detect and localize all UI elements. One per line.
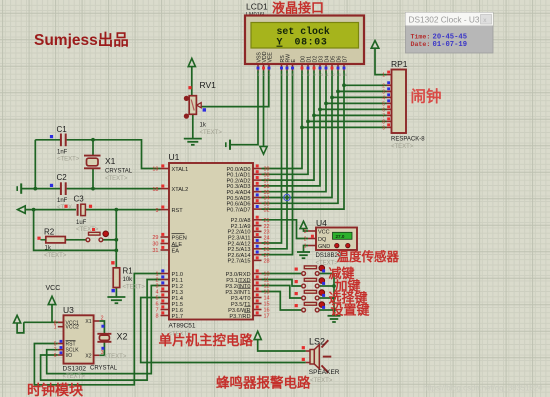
svg-text:19: 19 [152,167,158,173]
label 减键 [329,266,355,281]
U4 labels [316,218,342,267]
power arrow VCC above U3 [48,296,56,322]
U3 labels [63,305,87,380]
label 蜂鸣器报警电路 [216,375,311,391]
svg-text:10k: 10k [123,277,134,283]
crystal X1 [84,156,133,182]
label 闹钟 [411,87,442,106]
svg-text:VCC2: VCC2 [66,325,80,331]
U1 left pin labels [172,167,189,320]
power arrow at speaker [254,331,306,351]
svg-text:CRYSTAL: CRYSTAL [105,169,133,175]
svg-text:XTAL1: XTAL1 [172,167,189,173]
watermark [423,384,543,393]
svg-text:1nF: 1nF [57,150,68,156]
svg-text:12: 12 [330,72,335,77]
push button key4 [295,302,326,312]
RP1 labels [391,59,425,150]
svg-text:<TEXT>: <TEXT> [63,374,86,380]
LCD pin name labels [256,51,348,62]
resistor-pack RP1 body [392,70,407,134]
svg-text:VCC: VCC [46,285,61,292]
svg-text:10: 10 [318,72,323,77]
svg-text:08:03: 08:03 [295,37,328,48]
svg-text:13: 13 [336,72,341,77]
svg-text:3: 3 [304,229,307,235]
power arrow at U4 VCC [300,221,308,231]
U1 label [169,152,180,162]
svg-text:31: 31 [152,248,158,254]
svg-text:XTAL2: XTAL2 [172,187,189,193]
wire X1 bottom stub [91,168,95,190]
capacitor C2 [50,173,72,211]
label 液晶接口 [272,1,324,16]
svg-text:1k: 1k [45,246,52,252]
wire button4 to common ground rail [319,309,334,311]
capacitor C1 [50,125,80,163]
svg-text:C3: C3 [74,195,85,204]
svg-text:U3: U3 [63,305,74,315]
svg-text:AT89C51: AT89C51 [169,323,196,330]
wire U1 P3.2 to button3 [262,286,302,299]
svg-text:RP1: RP1 [391,59,408,69]
svg-text:时钟模块: 时钟模块 [27,382,84,397]
svg-text:2: 2 [101,316,104,322]
svg-text:RST: RST [172,208,184,214]
op-amp U1 AT89C51 body [169,163,253,320]
U1 right pin labels [225,167,250,320]
wire X1 top stub [91,138,95,156]
svg-text:E: E [291,59,297,63]
svg-text:P0.7/AD7: P0.7/AD7 [227,207,251,213]
power arrow above RV1 [188,58,195,95]
wire RST row left [25,208,76,212]
svg-text:27.0: 27.0 [336,234,345,239]
U3 right pins [85,316,103,360]
U4 pin labels [318,229,330,250]
wire U1 P1.4 to speaker [141,298,306,363]
wire button2 to common ground rail [319,285,334,287]
wire LCD D6 to U1 P0.6 and RP1 pin 3 [262,71,340,204]
LCD1 display body [245,16,364,65]
wire LCD D5 to U1 P0.5 and RP1 pin 4 [262,71,334,198]
wire C2 to XTAL2 [67,188,161,190]
svg-text:DQ: DQ [318,237,327,243]
wire U3 I/O to U1 P1.1 [41,280,161,381]
svg-text:14: 14 [342,72,347,77]
svg-text:9: 9 [382,125,385,131]
wire RP1 pin 3 to D6 bus [338,90,387,92]
svg-text:C1: C1 [57,125,68,134]
wire LCD D2 to U1 P0.2 and RP1 pin 7 [262,71,316,181]
svg-text:1: 1 [54,325,57,331]
wire U3 X1 to crystal X2 [99,321,104,334]
power arrow small left of U3 [14,315,24,333]
wire U1 P3.0 to button1 [262,273,302,275]
push button (reset) [86,228,108,242]
svg-text:液晶接口: 液晶接口 [272,1,324,16]
svg-text:CRYSTAL: CRYSTAL [90,366,118,372]
wire RST-row branch down-left [34,210,117,251]
U1 right pin stubs and numbers [253,164,270,319]
wire RP1 pin 4 to D5 bus [332,96,387,98]
push button key3 [295,290,326,300]
svg-text:R1: R1 [123,267,134,276]
svg-text:X1: X1 [85,319,91,325]
svg-text:Date:: Date: [411,41,431,48]
svg-text:EA: EA [172,248,180,254]
svg-text:X1: X1 [105,156,116,166]
svg-text:PSEN: PSEN [172,235,187,241]
svg-text:<TEXT>: <TEXT> [44,253,67,259]
wire LCD RW to U1 P2.5 [262,71,288,249]
U4 pin stubs [304,229,316,250]
svg-text:2: 2 [382,83,385,89]
wire LCD D1 to U1 P0.1 and RP1 pin 8 [262,71,310,175]
svg-text:VEE: VEE [267,52,273,63]
wire RP1 pin 5 to D4 bus [326,102,387,104]
LCD pin stubs [257,64,348,77]
svg-text:18: 18 [152,187,158,193]
wire RP1 pin 8 to D1 bus [308,120,387,122]
wire U3 RST to U1 P1.0 [34,274,160,385]
DS1302 popup time text [411,34,468,49]
svg-text:RV1: RV1 [200,80,217,90]
label 设置键 [331,303,370,318]
ground below R1 [107,288,125,304]
node marker on RW vertical [284,194,290,200]
wire R2 to button [65,239,86,241]
U1 left pin stubs and numbers [152,164,169,319]
svg-text:1uF: 1uF [76,220,87,226]
svg-text:https∶//blog.csdn.net/qq_38351: https∶//blog.csdn.net/qq_38351824 [423,384,543,393]
svg-text:<TEXT>: <TEXT> [104,354,127,360]
svg-text:<TEXT>: <TEXT> [391,144,414,150]
svg-text:set clock: set clock [277,26,330,37]
wire button3 to common ground rail [319,297,334,299]
push button key1 [295,265,326,275]
svg-text:闹钟: 闹钟 [411,87,442,106]
VCC label [46,285,61,292]
DS1302 popup panel [406,13,494,54]
svg-text:8: 8 [155,314,158,320]
svg-text:32: 32 [264,207,270,213]
svg-text:C2: C2 [57,173,68,182]
svg-text:RST: RST [66,342,76,348]
svg-text:U1: U1 [169,152,180,162]
wire LCD VSS to ground terminal [226,71,258,150]
svg-text:GND: GND [318,244,330,250]
wire LCD D7 to U1 P0.7 and RP1 pin 2 [262,71,346,210]
U1 value AT89C51 [169,323,196,338]
RP1 pin stubs [382,71,391,132]
wire U1 P3.1 to button2 [262,280,302,287]
svg-text:VCC: VCC [318,229,330,235]
wire LCD D3 to U1 P0.3 and RP1 pin 6 [262,71,322,186]
svg-text:28: 28 [264,259,270,265]
wire RST vertical to R1 [114,210,118,268]
svg-text:单片机主控电路: 单片机主控电路 [159,332,254,348]
svg-text:LCD1: LCD1 [246,2,268,12]
svg-text:<TEXT>: <TEXT> [105,176,128,182]
clock chip U3 DS1302 body [64,315,94,363]
wire RV1 wiper to LCD VEE [201,71,269,112]
svg-text:RESPACK-8: RESPACK-8 [391,137,425,143]
potentiometer RV1 [184,80,223,136]
svg-text:1: 1 [304,244,307,250]
wire LCD D4 to U1 P0.4 and RP1 pin 5 [262,71,328,192]
label 单片机主控电路 [159,332,254,348]
wire button1 to common ground rail [319,273,334,275]
svg-text:5: 5 [54,342,57,348]
ground terminal at C2 [17,183,60,193]
wire button to R1 vertical [103,238,118,242]
svg-text:01-07-19: 01-07-19 [433,41,468,49]
svg-text:P3.7/RD: P3.7/RD [229,314,250,320]
svg-text:LS2: LS2 [309,337,325,347]
svg-text:D7: D7 [342,56,348,63]
label 温度传感器 [337,249,400,264]
wire RP1 pin 2 to D7 bus [344,84,387,86]
wire U1 P2.0 to U4 DQ [262,220,309,239]
svg-text:<TEXT>: <TEXT> [57,157,80,163]
svg-text:2: 2 [304,237,307,243]
svg-text:6: 6 [54,353,57,359]
LCD1 labels [246,2,268,25]
wire crystal X2 to U3 X2 pin [99,342,104,356]
button common wire to ground [328,274,341,323]
crystal X2 [90,325,128,372]
power-down terminal under LCD VDD [260,71,267,155]
wire RP1 pin 7 to D2 bus [314,114,387,116]
capacitor C3 (polarized) [64,195,98,234]
svg-text:U4: U4 [316,218,327,228]
svg-text:P1.7: P1.7 [172,314,184,320]
label 时钟模块 [27,382,84,397]
wire U3 SCLK to U1 P1.2 [47,286,161,374]
svg-text:<TEXT>: <TEXT> [200,130,223,136]
svg-text:1k: 1k [200,123,207,129]
svg-text:30: 30 [152,242,158,248]
label 加键 [334,279,361,294]
svg-text:9: 9 [155,208,158,214]
wire C3 to RST pin [86,208,161,212]
wire VCC rail to U3 VCC1 [24,321,64,323]
temperature sensor U4 DS18B20 body [316,228,357,251]
wire LCD RS to U1 P2.4 [262,71,282,244]
ground below U4 [297,246,310,259]
svg-text:P2.7/A15: P2.7/A15 [227,259,250,265]
input terminal arrow at RST row [18,206,26,213]
svg-text:I/O: I/O [66,353,73,359]
svg-text:29: 29 [152,235,158,241]
wire LCD E to U1 P2.6 [262,71,293,255]
resistor R2 [37,228,66,260]
svg-text:DS1302: DS1302 [63,366,87,373]
svg-text:温度传感器: 温度传感器 [337,249,400,264]
svg-text:蜂鸣器报警电路: 蜂鸣器报警电路 [216,375,311,391]
svg-text:R2: R2 [44,228,55,237]
ground below RV1 [184,114,202,145]
wire RP1 pin 9 to D0 bus [302,126,387,128]
svg-text:<TEXT>: <TEXT> [310,378,333,384]
svg-text:DS1302 Clock - U3: DS1302 Clock - U3 [409,15,480,25]
svg-text:Sumjess出品: Sumjess出品 [34,30,129,49]
speaker LS2 [302,337,340,384]
svg-text:Time:: Time: [411,34,431,41]
resistor R1 [111,261,145,292]
power arrow at RP1 pin 1 [371,41,386,75]
wire U1 P3.3 to button4 [262,292,302,311]
svg-text:17: 17 [264,314,270,320]
svg-text:<TEXT>: <TEXT> [123,285,146,291]
title Sumjess出品 [34,30,129,49]
wire C1 row to XTAL1 [35,140,160,169]
wire left vertical C1-C2 [33,140,37,191]
wire RP1 pin 6 to D3 bus [320,108,387,110]
svg-text:设置键: 设置键 [331,303,370,318]
svg-text:X2: X2 [117,332,128,342]
wire LCD D0 to U1 P0.0 and RP1 pin 9 [262,71,304,169]
push button key2 [295,278,326,288]
svg-text:1nF: 1nF [57,198,68,204]
U3 left pins [54,320,80,359]
LCD screen text [277,26,330,48]
svg-text:1: 1 [382,73,385,79]
label 选择键 [329,291,368,306]
svg-text:SPEAKER: SPEAKER [309,369,340,376]
svg-text:X2: X2 [85,354,91,360]
